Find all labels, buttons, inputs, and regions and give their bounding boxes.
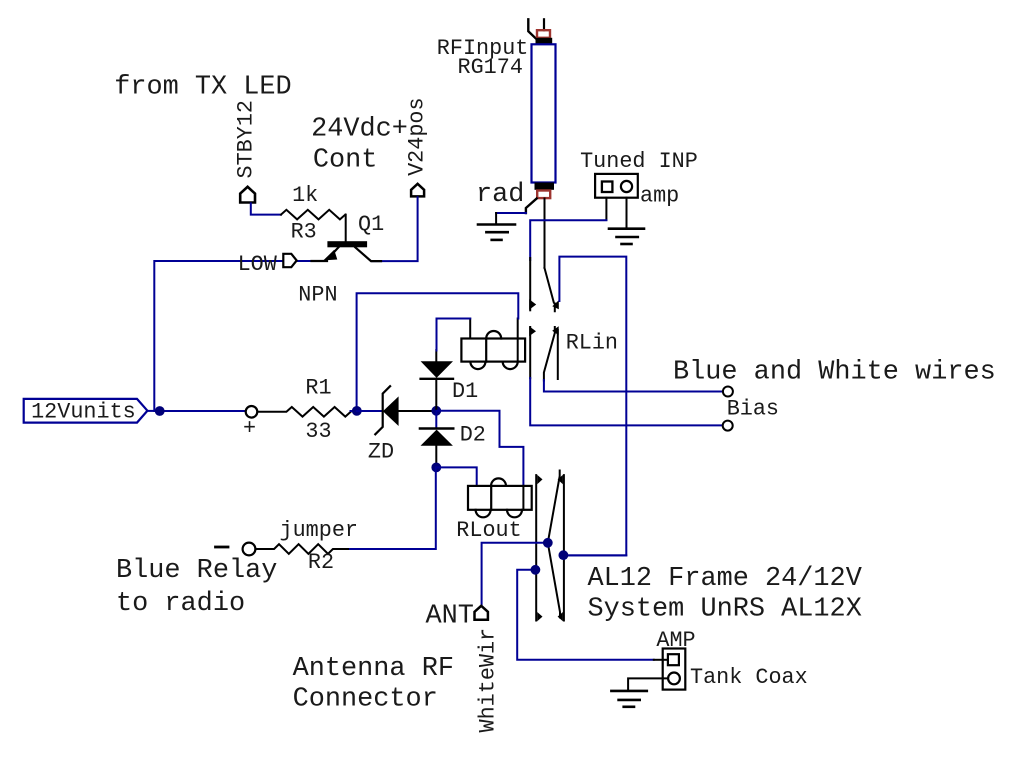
wire AMP pin1 lead [654,659,668,661]
sign minus [216,546,229,549]
pin minus circle [243,543,256,556]
svg-text:RLout: RLout [456,518,521,543]
wire RLin NO to top rail [559,257,626,556]
svg-text:Blue Relay: Blue Relay [116,556,277,586]
pin ANT pentagon [475,606,488,620]
relay contact RLin lower left line [529,327,531,378]
ground rad [478,225,515,240]
diode D1 cathode bar [421,378,453,380]
relay contact RLin upper fixed line [529,258,531,310]
wire zener anode to main node [398,410,436,412]
wire V24pos to collector [372,197,418,261]
coax RFInput center pin [543,19,545,30]
wire R1 to node [351,410,357,412]
svg-text:R2: R2 [308,550,334,575]
junction R1 node [352,406,362,416]
relay coil RLin divider [485,339,487,362]
wire Bias from RLin [530,378,722,425]
connector AMP pin2 circle [668,673,680,685]
transistor Q1 emitter arrow [323,250,337,261]
transistor Q1 base bar [327,241,367,247]
diode D2 cathode lead [435,411,437,429]
wire R3 to base [345,215,347,242]
svg-text:Cont: Cont [313,145,378,175]
wire AMP pin2 to ground [628,678,668,690]
svg-text:RLin: RLin [566,330,618,355]
svg-text:R3: R3 [291,220,317,245]
resistor R1 [258,407,351,417]
resistor R3 [281,210,345,220]
svg-text:Tuned INP: Tuned INP [580,149,698,174]
relay contact RLin lower left arrow [529,326,536,336]
svg-text:1k: 1k [292,183,318,208]
wire D1 to RLin coil [437,319,471,351]
connector AMP box [663,649,686,690]
wire RLin coil to R1 node [357,293,519,411]
svg-text:D1: D1 [452,379,478,404]
pin STBY12 pentagon [240,187,255,203]
svg-text:WhiteWir: WhiteWir [475,628,500,733]
zener ZD triangle [383,396,399,426]
relay coil RLin bottom bumps [470,362,517,370]
relay contact RLin upper blade arrow [552,300,559,309]
ground amp [609,229,644,244]
relay contact RLout right top arrow [558,475,563,484]
wire STBY12 to R3 [251,203,281,214]
svg-text:Bias: Bias [727,397,779,422]
pin V24pos pentagon [411,184,424,197]
svg-text:Tank Coax: Tank Coax [690,665,808,690]
relay coil RLout top bump [491,478,506,486]
wire ANT to RLout blade [482,543,548,606]
svg-text:STBY12: STBY12 [234,100,259,178]
net flag 12Vunits [24,399,148,423]
svg-text:+: + [243,416,256,441]
wire rad braid diagonal [526,199,537,214]
svg-text:ANT: ANT [426,601,474,631]
coax RFInput bottom red ring [537,191,550,199]
relay contact RLout blade [548,471,560,618]
coax RFInput shield pin [528,19,537,39]
svg-text:amp: amp [640,183,679,208]
connector Tuned INP pin 1 square [602,182,613,193]
wire coax center conductor down [544,199,546,269]
svg-text:jumper: jumper [280,518,358,543]
relay coil RLout divider [490,486,492,510]
wire node to zener [357,410,382,412]
junction D2 node [431,463,441,473]
diode D2 cathode bar [420,427,453,429]
wire RLin blade to Blue White pin [544,380,723,392]
svg-text:System UnRS AL12X: System UnRS AL12X [588,594,862,624]
relay contact RLout right bottom arrow [558,612,563,621]
wire junction to plus pin [160,410,246,412]
diode D1 triangle [421,361,453,378]
relay contact RLin upper fixed arrow [529,299,536,309]
zener ZD bar [375,386,390,434]
junction main node [431,406,441,416]
svg-text:LOW: LOW [238,252,278,277]
ground AMP [611,691,646,707]
wire rad to ground [496,212,526,214]
transistor Q1 emitter [312,247,339,261]
relay coil RLin top bump [486,331,501,339]
transistor Q1 collector [355,247,381,261]
svg-text:from TX LED: from TX LED [114,73,292,103]
svg-text:ZD: ZD [368,439,394,464]
wire Tuned INP pin1 to RLin common [530,220,606,260]
svg-text:AMP: AMP [656,628,695,653]
diode D2 triangle [421,430,453,446]
svg-text:RG174: RG174 [458,55,523,80]
svg-text:33: 33 [305,419,331,444]
pin Blue White circle [723,387,733,397]
svg-text:Q1: Q1 [358,212,384,237]
relay contact RLin lower right line [557,330,559,379]
relay contact RLin upper blade [545,268,555,311]
wire RLout left to AMP [517,570,654,660]
net flag LOW [283,254,296,267]
relay contact RLout left bottom arrow [537,612,542,621]
svg-text:NPN: NPN [298,282,337,307]
wire main node to RLout coil right pin [436,411,523,486]
relay contact RLout left top arrow [537,475,542,484]
junction RLout right node [559,550,569,560]
svg-text:12Vunits: 12Vunits [31,399,136,424]
relay coil RLout body [468,486,532,510]
junction RLout blade node [543,538,553,548]
relay coil RLout right pin inside [522,486,524,510]
svg-text:to radio: to radio [116,589,245,619]
junction 12V node [155,406,165,416]
svg-text:rad: rad [476,180,524,210]
relay contact RLin lower blade [544,327,555,381]
relay coil RLin right pin [517,319,519,362]
connector AMP pin1 square [668,654,679,665]
relay contact RLin lower right arrow [552,326,559,335]
wire RLout right line to rail [563,554,626,556]
wire ground stem rad [495,213,497,224]
svg-text:V24pos: V24pos [405,97,430,175]
relay contact RLout right line [563,475,565,620]
wire D2 node to RLout coil left pin [436,467,476,486]
coax RFInput top red ring [537,30,550,38]
svg-text:Antenna RF: Antenna RF [293,654,454,684]
relay coil RLout bottom bumps [476,510,522,518]
svg-text:R1: R1 [305,376,331,401]
wire D2 node down to R2 [349,467,436,549]
svg-text:AL12 Frame 24/12V: AL12 Frame 24/12V [588,564,862,594]
coax RFInput top braid cap [536,38,553,45]
diode D2 anode lead [435,446,437,468]
pin plus circle [246,406,258,418]
wire 12V rail up to LOW [154,261,312,411]
wire 12Vunits to junction [147,410,160,412]
resistor R2 jumper [256,544,349,554]
relay contact RLout left line [535,475,537,620]
diode D1 anode lead [435,350,437,361]
pin Bias circle [723,421,733,431]
relay coil RLin body [461,339,525,362]
diode D1 cathode lead [435,379,437,411]
coax RFInput bottom braid cap [535,183,555,190]
wire Tuned INP pin1 lead [605,198,607,220]
relay coil RLin left pin [469,319,471,339]
svg-text:Connector: Connector [293,685,438,715]
connector Tuned INP pin 2 circle [621,181,632,192]
svg-text:D2: D2 [460,423,486,448]
svg-text:Blue and White wires: Blue and White wires [673,358,996,388]
coax RFInput body [532,44,556,182]
connector Tuned INP box [595,174,638,198]
wire Tuned INP pin2 lead to ground [626,198,628,228]
svg-text:24Vdc+: 24Vdc+ [311,115,408,145]
junction RLout left node [531,565,541,575]
